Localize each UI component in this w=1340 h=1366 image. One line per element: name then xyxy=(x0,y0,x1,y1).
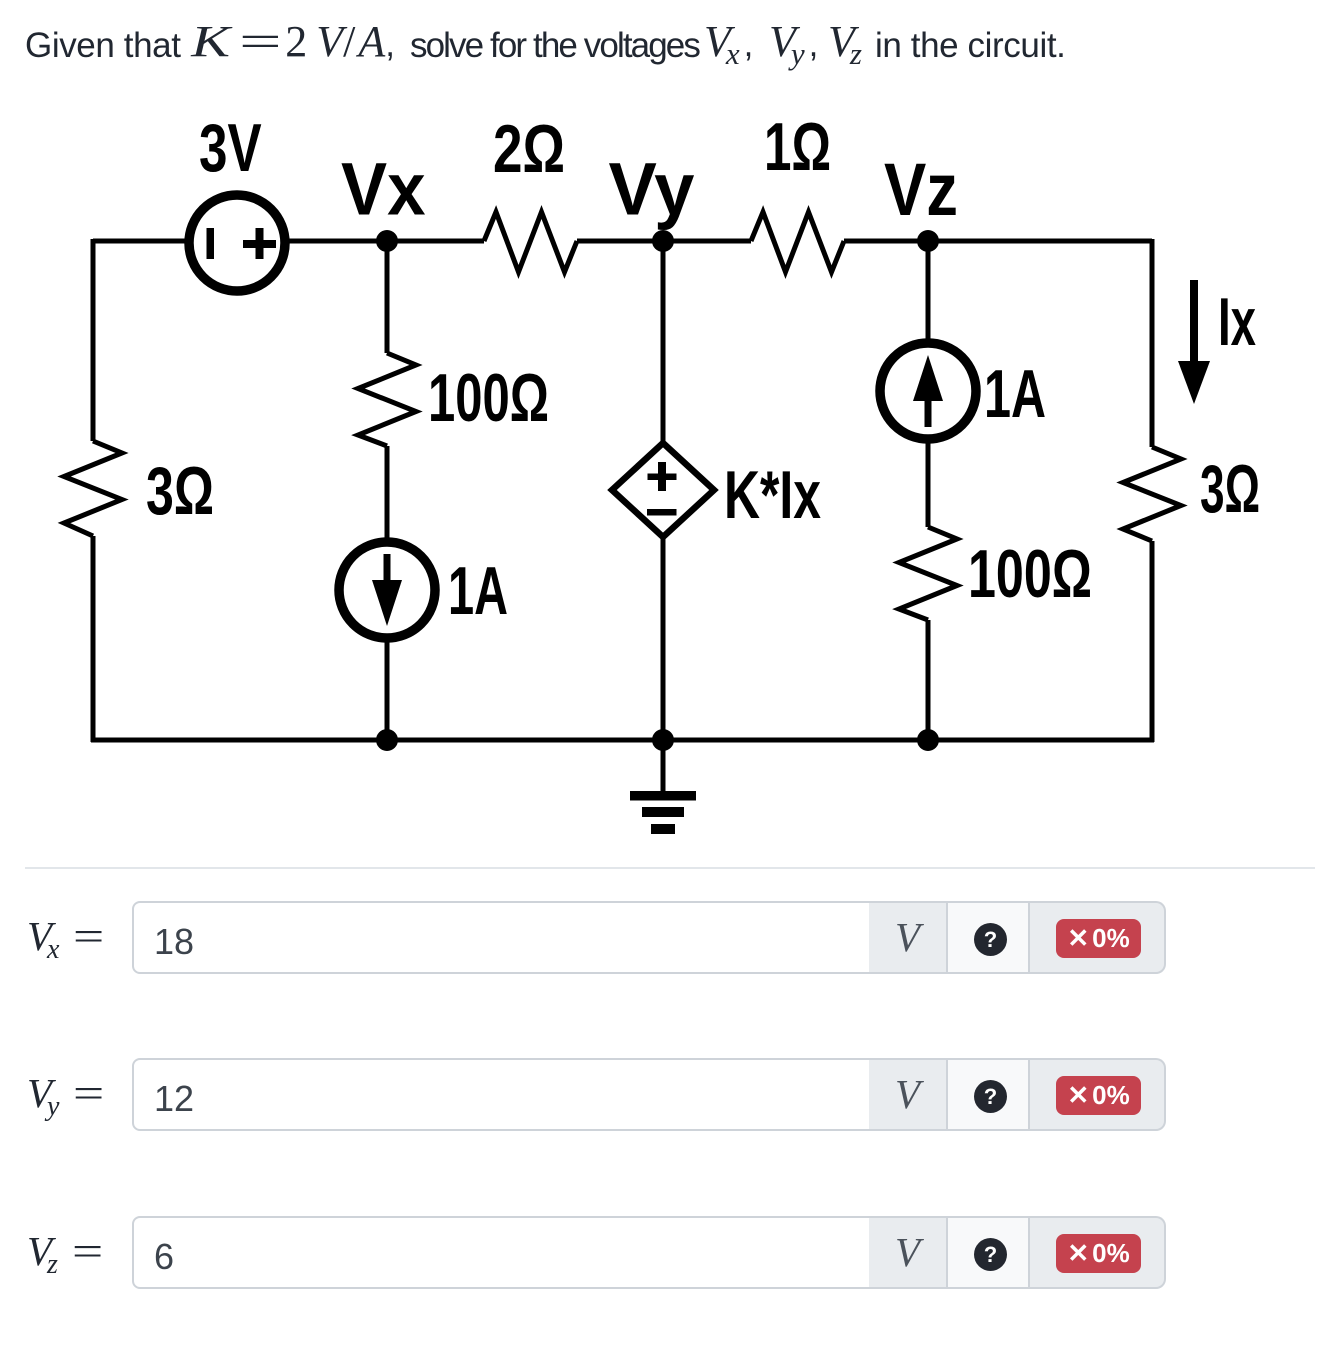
svg-text:Ix: Ix xyxy=(1218,284,1256,360)
node Vz dot xyxy=(917,230,939,252)
resistor R 3ohm left xyxy=(64,441,122,536)
svg-text:3Ω: 3Ω xyxy=(1200,451,1260,527)
answer row Vy xyxy=(0,1058,1340,1131)
current source I2 1A (up) xyxy=(880,343,976,439)
svg-text:100Ω: 100Ω xyxy=(428,360,549,436)
wire top: 2ohm to 1ohm xyxy=(577,239,751,244)
wire left side lower xyxy=(91,536,96,742)
answer row Vz xyxy=(0,1216,1340,1289)
svg-text:Vx: Vx xyxy=(341,148,426,231)
wire top: left node to 2ohm xyxy=(93,239,484,244)
svg-text:Vz: Vz xyxy=(884,148,958,231)
node Vx dot xyxy=(376,230,398,252)
dependent source K*Ix (diamond) xyxy=(612,443,714,537)
wire Vy branch upper xyxy=(661,241,666,445)
wire Vx branch mid xyxy=(385,446,390,545)
bottom junction dot 3 xyxy=(917,729,939,751)
resistor R 2ohm xyxy=(484,212,577,272)
resistor R 100ohm left xyxy=(358,353,416,446)
wire Vz branch lower xyxy=(926,620,931,740)
svg-text:1A: 1A xyxy=(448,553,508,629)
svg-text:1Ω: 1Ω xyxy=(764,109,831,185)
svg-text:Vy: Vy xyxy=(609,148,695,231)
wire right side lower xyxy=(1150,541,1155,742)
ground symbol xyxy=(630,791,696,834)
wire bottom xyxy=(91,738,1154,743)
svg-text:3V: 3V xyxy=(199,110,262,186)
problem statement xyxy=(0,0,1340,90)
current arrow Ix xyxy=(1178,280,1210,404)
resistor R 3ohm right xyxy=(1123,447,1181,541)
svg-text:2Ω: 2Ω xyxy=(493,111,565,187)
wire Vz branch upper xyxy=(926,241,931,345)
svg-text:1A: 1A xyxy=(984,356,1046,432)
node Vy dot xyxy=(652,230,674,252)
svg-text:3Ω: 3Ω xyxy=(146,453,214,529)
separator xyxy=(25,867,1315,869)
wire top: 1ohm to right corner xyxy=(844,239,1152,244)
wire Vx branch upper xyxy=(385,241,390,353)
voltage source V1 3V xyxy=(189,195,285,291)
wire Vx branch lower xyxy=(385,637,390,740)
wire left side upper xyxy=(91,239,96,441)
svg-text:100Ω: 100Ω xyxy=(968,536,1092,612)
resistor R 1ohm xyxy=(751,212,844,272)
bottom junction dot 1 xyxy=(376,729,398,751)
current source I1 1A (down) xyxy=(339,542,435,638)
ground stem xyxy=(661,740,666,791)
bottom junction dot 2 xyxy=(652,729,674,751)
resistor R 100ohm right xyxy=(899,527,957,620)
wire Vy branch lower xyxy=(661,535,666,740)
wire right side upper xyxy=(1150,239,1155,447)
answer row Vx xyxy=(0,901,1340,974)
wire Vz branch mid xyxy=(926,437,931,527)
svg-text:K*Ix: K*Ix xyxy=(724,457,821,533)
